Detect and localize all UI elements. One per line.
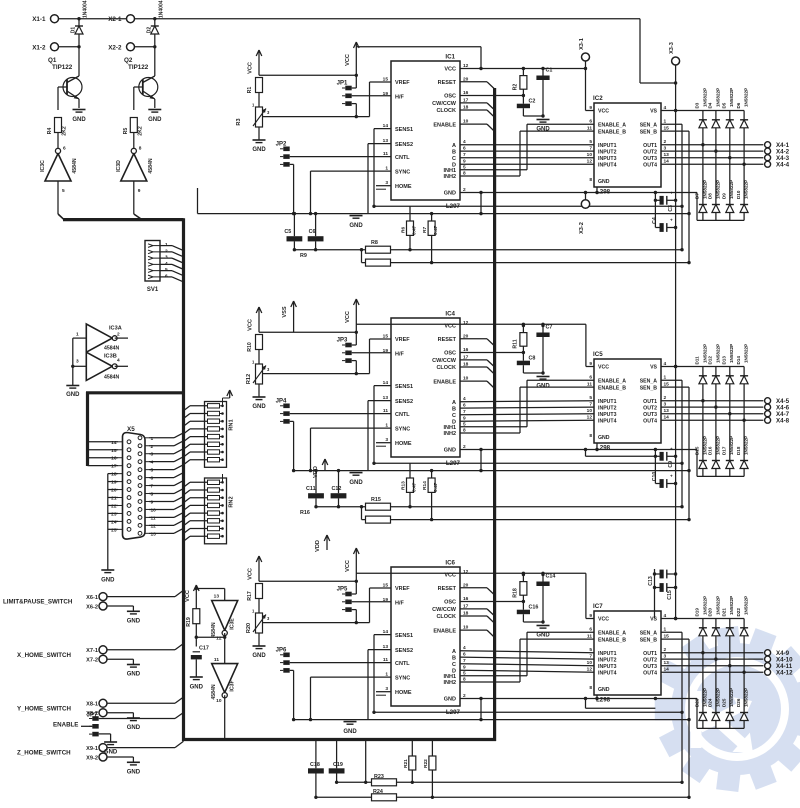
svg-text:D6: D6 — [736, 102, 741, 108]
svg-text:INH1: INH1 — [443, 674, 456, 680]
diode D10 1N5822P — [736, 164, 749, 220]
ground symbol on rail — [343, 722, 357, 735]
svg-text:1: 1 — [151, 436, 154, 442]
svg-text:SEN_A: SEN_A — [640, 378, 658, 384]
svg-text:R13: R13 — [401, 481, 407, 490]
wire L298 GND pin stub — [595, 443, 657, 451]
wire JP5 pin3 to VREF net — [352, 610, 357, 623]
svg-text:JP4: JP4 — [276, 398, 287, 404]
svg-text:SENS1: SENS1 — [395, 127, 413, 133]
wire X2-2 to D2 column — [135, 45, 157, 48]
svg-text:SENS2: SENS2 — [395, 142, 413, 148]
svg-text:Q1: Q1 — [48, 57, 57, 64]
connector X1-2 — [32, 43, 58, 52]
svg-text:5: 5 — [589, 395, 592, 401]
wire INH2 to ENABLE_B — [460, 387, 594, 433]
svg-text:R21: R21 — [403, 759, 409, 768]
svg-text:GND: GND — [190, 685, 204, 691]
diode D18 1N5822P — [736, 420, 749, 476]
wire X9-2 to ground — [107, 757, 133, 762]
wire SENS2 — [368, 401, 391, 471]
svg-text:R9: R9 — [300, 253, 307, 259]
svg-text:VREF: VREF — [395, 80, 410, 86]
diode D8 1N5822P — [708, 151, 721, 220]
wire INH2 to ENABLE_B — [460, 131, 594, 176]
svg-text:13: 13 — [151, 531, 157, 537]
wire OUT2 to X4-6 — [661, 406, 763, 408]
wire SEN_A to sense rail — [661, 124, 684, 251]
inverter IC3A 4584N — [76, 324, 122, 352]
svg-text:D3: D3 — [695, 102, 700, 108]
svg-text:1N5822P: 1N5822P — [729, 344, 734, 363]
capacitor C14 — [536, 573, 555, 624]
svg-text:10: 10 — [216, 698, 222, 704]
wire X9-1 to bus — [107, 741, 184, 747]
svg-text:INH1: INH1 — [443, 425, 456, 431]
wire OUT4 to X4-4 — [661, 163, 763, 165]
svg-text:R4: R4 — [47, 128, 53, 135]
capacitor C17 — [191, 645, 209, 677]
svg-text:GND: GND — [598, 179, 610, 185]
wire IC GND pin to ground rail — [460, 697, 697, 722]
svg-text:12: 12 — [463, 320, 469, 326]
svg-text:2: 2 — [151, 444, 154, 450]
svg-text:24: 24 — [111, 519, 117, 525]
svg-text:SENS1: SENS1 — [395, 384, 413, 390]
connector X7-1 — [86, 646, 107, 654]
svg-text:4584N: 4584N — [104, 375, 120, 381]
wire phase A to INPUT1 — [460, 651, 594, 653]
svg-text:SENS1: SENS1 — [395, 633, 413, 639]
svg-text:X1-1: X1-1 — [32, 16, 46, 23]
svg-text:IC4: IC4 — [445, 311, 455, 318]
svg-text:R1: R1 — [247, 87, 253, 94]
svg-text:INPUT4: INPUT4 — [598, 162, 617, 168]
svg-text:ENABLE_B: ENABLE_B — [598, 129, 626, 135]
diode D24 1N5822P — [708, 659, 721, 728]
diode D13 1N5822P — [722, 344, 735, 416]
svg-text:VCC: VCC — [248, 319, 254, 331]
svg-text:CW/CCW: CW/CCW — [432, 358, 457, 364]
svg-text:GND: GND — [127, 618, 141, 624]
wire ENABLE to control bus — [460, 124, 495, 131]
svg-text:VCC: VCC — [345, 54, 351, 66]
capacitor C7 — [536, 324, 552, 375]
svg-text:X_HOME_SWITCH: X_HOME_SWITCH — [17, 652, 72, 659]
svg-text:4584N: 4584N — [211, 684, 217, 700]
svg-text:+: + — [670, 218, 673, 223]
wire X7-2 to ground — [107, 659, 133, 664]
resistor R4 2K2 — [47, 118, 68, 148]
svg-text:14: 14 — [111, 440, 117, 446]
wire ENABLE to JP7 — [81, 725, 92, 727]
wire OUT2 to X4-10 — [661, 658, 763, 660]
svg-text:D26: D26 — [736, 698, 741, 707]
svg-text:IC3B: IC3B — [104, 354, 117, 360]
wire VCC rail to JP pin1 (JP5) — [259, 580, 358, 594]
svg-text:SYNC: SYNC — [395, 169, 410, 175]
svg-text:IC3D: IC3D — [116, 160, 122, 172]
svg-text:IC1: IC1 — [445, 54, 455, 61]
svg-text:R17: R17 — [247, 591, 253, 601]
resistor R21 0.47 — [403, 741, 416, 784]
svg-text:4584N: 4584N — [72, 158, 78, 174]
thick wire X5 pins 14-17 to bus corner — [86, 392, 184, 466]
svg-text:VCC: VCC — [248, 568, 254, 580]
svg-text:GND: GND — [127, 672, 141, 678]
svg-text:D9: D9 — [722, 193, 727, 199]
capacitor C10 (electrolytic) — [652, 472, 677, 488]
svg-text:12: 12 — [587, 159, 593, 165]
svg-text:C5: C5 — [284, 229, 291, 235]
svg-text:8: 8 — [589, 433, 592, 439]
svg-text:IC3E: IC3E — [230, 618, 236, 630]
svg-text:5: 5 — [589, 647, 592, 653]
svg-text:OUT3: OUT3 — [643, 664, 657, 670]
svg-text:VCC: VCC — [598, 365, 609, 371]
svg-text:SEN_B: SEN_B — [640, 637, 658, 643]
svg-text:10: 10 — [587, 152, 593, 158]
svg-text:GND: GND — [343, 729, 357, 735]
svg-text:SYNC: SYNC — [395, 426, 410, 432]
svg-text:1N5822P: 1N5822P — [702, 88, 707, 107]
L298 IC2 — [587, 95, 670, 196]
capacitor C2 — [517, 96, 543, 117]
wire JP3 pin2 to H/F — [352, 352, 391, 354]
wire X3-1 to VCC pin 9 — [586, 69, 595, 111]
wire JP1 pin2 to H/F — [352, 95, 391, 97]
svg-text:OUT1: OUT1 — [643, 143, 657, 149]
svg-text:12: 12 — [587, 667, 593, 673]
svg-text:GND: GND — [101, 578, 115, 584]
ground for C2/C1 — [536, 120, 550, 133]
svg-text:2K2: 2K2 — [137, 126, 143, 136]
resistor R24 — [372, 789, 397, 801]
svg-text:OUT4: OUT4 — [643, 162, 657, 168]
wire phase B to INPUT2 — [460, 150, 594, 152]
svg-text:0.47: 0.47 — [412, 225, 418, 235]
connector X2-1 — [108, 15, 134, 24]
svg-text:5: 5 — [151, 468, 154, 474]
inverter IC3F 4584N — [211, 657, 238, 704]
wire INH1 to ENABLE_A — [460, 632, 594, 676]
svg-text:GND: GND — [349, 223, 363, 229]
wire SEN_B to ground-side rail — [661, 131, 691, 264]
svg-text:18: 18 — [111, 472, 117, 478]
svg-text:D2: D2 — [146, 27, 152, 34]
svg-text:LIMIT&PAUSE_SWITCH: LIMIT&PAUSE_SWITCH — [3, 599, 73, 606]
svg-text:CLOCK: CLOCK — [436, 614, 456, 620]
svg-text:C6: C6 — [309, 229, 316, 235]
svg-text:RN2: RN2 — [229, 496, 235, 507]
resistor R2 — [513, 67, 527, 96]
connector X4-2 — [765, 148, 790, 155]
wire IC3C output to thick bus — [58, 181, 64, 220]
svg-text:C7: C7 — [546, 325, 553, 331]
svg-text:SEN_B: SEN_B — [640, 385, 658, 391]
svg-text:VCC: VCC — [598, 617, 609, 623]
svg-text:B: B — [452, 655, 456, 661]
svg-text:D1: D1 — [71, 27, 77, 34]
diode D2 1N4004 — [146, 0, 164, 47]
svg-text:GND: GND — [444, 697, 456, 703]
wire IC GND pin to ground rail — [460, 448, 697, 473]
svg-text:VCC: VCC — [185, 590, 191, 602]
ground for X5 — [101, 570, 115, 584]
ground for X8 — [127, 718, 141, 731]
svg-text:12: 12 — [587, 415, 593, 421]
svg-text:7: 7 — [589, 146, 592, 152]
connector X3-2 — [579, 200, 590, 234]
inverter IC3B 4584N — [76, 352, 120, 380]
svg-text:CLOCK: CLOCK — [436, 365, 456, 371]
svg-text:7: 7 — [589, 654, 592, 660]
wire X1-2 to D1 column — [59, 45, 81, 48]
wire SENS2 — [368, 650, 391, 720]
svg-text:Q2: Q2 — [124, 57, 133, 64]
svg-text:OUT4: OUT4 — [643, 418, 657, 424]
svg-text:1N5822P: 1N5822P — [702, 596, 707, 615]
ground for Q1 — [72, 110, 86, 124]
svg-text:OUT3: OUT3 — [643, 156, 657, 162]
svg-text:INPUT2: INPUT2 — [598, 405, 617, 411]
diode D9 1N5822P — [722, 158, 735, 221]
svg-text:1: 1 — [76, 332, 79, 338]
connector X8-2 — [86, 709, 107, 717]
svg-text:D13: D13 — [722, 356, 727, 365]
svg-text:1N5822P: 1N5822P — [715, 688, 720, 707]
svg-text:1N5822P: 1N5822P — [715, 180, 720, 199]
svg-text:GND: GND — [127, 769, 141, 775]
power VCC for R17 — [248, 556, 262, 581]
svg-text:ENABLE_A: ENABLE_A — [598, 122, 626, 128]
wire phase D to INPUT4 — [460, 420, 594, 421]
svg-text:8: 8 — [139, 146, 142, 152]
svg-text:B: B — [452, 149, 456, 155]
wire X8-2 to ground — [107, 713, 133, 718]
svg-text:X7-2: X7-2 — [86, 658, 98, 664]
wire IC GND pin to ground rail — [460, 191, 697, 216]
jumper JP4 — [276, 398, 290, 423]
svg-text:11: 11 — [214, 657, 219, 663]
svg-text:0.47: 0.47 — [433, 225, 439, 235]
svg-text:CNTL: CNTL — [395, 155, 410, 161]
svg-text:HOME: HOME — [395, 690, 412, 696]
svg-text:VS: VS — [650, 109, 657, 115]
svg-text:D22: D22 — [736, 608, 741, 617]
ground for R12 — [252, 384, 266, 410]
wire SENS1 — [374, 386, 391, 464]
svg-text:R10: R10 — [247, 342, 253, 352]
wire diode bottom rail — [697, 699, 744, 729]
wire CW/CCW to control bus — [460, 360, 495, 367]
svg-text:IC3F: IC3F — [230, 680, 236, 691]
svg-text:SEN_A: SEN_A — [640, 122, 658, 128]
resistor R10 — [247, 335, 263, 365]
svg-text:0.47: 0.47 — [412, 482, 418, 492]
power VDD arrow (channel 2) — [313, 459, 328, 478]
wire SENS1 — [374, 129, 391, 207]
svg-text:INPUT3: INPUT3 — [598, 664, 617, 670]
svg-text:H/F: H/F — [395, 95, 405, 101]
svg-text:OUT2: OUT2 — [643, 149, 657, 155]
svg-text:INH2: INH2 — [443, 174, 456, 180]
wire sense rail 1 — [372, 205, 682, 208]
svg-text:1N5822P: 1N5822P — [702, 688, 707, 707]
svg-text:GND: GND — [598, 435, 610, 441]
svg-text:C: C — [452, 662, 456, 668]
svg-text:C18: C18 — [310, 762, 320, 768]
resistor R8 — [366, 240, 391, 253]
svg-text:1N4004: 1N4004 — [83, 0, 89, 18]
wire ground rail — [294, 719, 689, 721]
svg-text:+: + — [670, 190, 673, 195]
ground symbol on rail — [349, 216, 363, 229]
svg-text:4584N: 4584N — [148, 158, 154, 174]
svg-text:8: 8 — [589, 685, 592, 691]
svg-text:RESET: RESET — [438, 80, 457, 86]
wire Q1 base to R4 — [57, 87, 59, 110]
capacitor C6 — [308, 212, 324, 251]
L297 IC6 — [383, 560, 469, 717]
svg-text:VDD: VDD — [313, 466, 319, 478]
svg-text:3: 3 — [151, 452, 154, 458]
wire VCC rail to X3-1 and VCC pin — [356, 47, 587, 71]
inverter IC3D 4584N — [116, 146, 154, 195]
svg-text:R19: R19 — [186, 617, 192, 627]
L297 IC4 — [383, 311, 469, 468]
wire phase D to INPUT4 — [460, 670, 594, 672]
wire VCC rail to JP pin1 (JP1) — [259, 74, 358, 88]
wire HOME stub — [376, 443, 391, 447]
svg-text:19: 19 — [111, 480, 117, 486]
svg-text:X4-12: X4-12 — [776, 669, 793, 676]
power VCC for R19 — [185, 585, 199, 610]
svg-text:R2: R2 — [513, 84, 519, 91]
svg-text:10: 10 — [587, 408, 593, 414]
svg-text:CW/CCW: CW/CCW — [432, 101, 457, 107]
svg-text:R12: R12 — [246, 374, 252, 384]
svg-text:C4: C4 — [652, 217, 658, 224]
svg-text:TIP122: TIP122 — [52, 64, 73, 71]
svg-text:4584N: 4584N — [211, 622, 217, 638]
svg-text:1N5822P: 1N5822P — [715, 344, 720, 363]
wire IC3A output — [115, 337, 128, 339]
connector X6-1 — [86, 593, 107, 601]
svg-text:11: 11 — [587, 126, 592, 132]
wire sense return rail A — [294, 249, 682, 251]
svg-text:D11: D11 — [695, 356, 700, 365]
L298 IC5 — [587, 351, 670, 452]
wire phase B to INPUT2 — [460, 407, 594, 408]
resistor R13 0.47 — [401, 463, 418, 508]
svg-text:R5: R5 — [123, 128, 129, 135]
svg-text:INPUT4: INPUT4 — [598, 670, 617, 676]
svg-text:4: 4 — [117, 358, 120, 364]
svg-text:17: 17 — [111, 464, 117, 470]
svg-text:Z_HOME_SWITCH: Z_HOME_SWITCH — [17, 750, 71, 757]
wire SYNC — [309, 677, 391, 721]
svg-text:OSC: OSC — [444, 351, 456, 357]
svg-text:1N5822P: 1N5822P — [729, 436, 734, 455]
wire JP6 pin2 to CNTL — [290, 662, 391, 664]
svg-text:X2-2: X2-2 — [108, 44, 122, 51]
svg-text:3: 3 — [76, 359, 79, 365]
jumper JP2 — [276, 141, 290, 166]
diode D7 1N5822P — [695, 145, 708, 221]
svg-text:A: A — [452, 649, 456, 655]
wire JP3 pin3 to VREF net — [352, 361, 357, 374]
transistor Q2 TIP122 — [124, 47, 158, 108]
svg-text:6: 6 — [589, 375, 592, 381]
svg-text:SEN_B: SEN_B — [640, 129, 658, 135]
wire JP7 pin1 to bus — [99, 713, 184, 719]
connector X4-5 — [765, 398, 790, 405]
svg-text:5: 5 — [62, 188, 65, 194]
svg-text:9: 9 — [151, 499, 154, 505]
svg-text:D5: D5 — [722, 102, 727, 108]
svg-text:D18: D18 — [736, 446, 741, 455]
svg-text:C16: C16 — [529, 605, 539, 611]
svg-text:D12: D12 — [708, 356, 713, 365]
wire phase C to INPUT3 — [460, 157, 594, 159]
wire IC3F output to bus — [224, 695, 226, 739]
svg-text:CNTL: CNTL — [395, 661, 410, 667]
diode D22 1N5822P — [736, 596, 749, 674]
wire VS filter left column — [654, 193, 657, 228]
resistor R19 — [186, 609, 200, 627]
svg-text:C19: C19 — [333, 762, 343, 768]
svg-text:11: 11 — [151, 515, 156, 521]
svg-text:C15: C15 — [667, 590, 673, 600]
svg-text:5: 5 — [589, 139, 592, 145]
wire VS filter left column — [653, 569, 656, 619]
wire IC3D output to thick bus — [134, 181, 142, 220]
diode D21 1N5822P — [722, 596, 735, 668]
wire X6-1 to bus — [107, 590, 184, 596]
ground for R20 — [252, 633, 266, 659]
svg-text:IC7: IC7 — [593, 603, 603, 610]
connector X9-1 — [86, 744, 107, 752]
wire JP2 pin2 to CNTL — [290, 156, 391, 158]
svg-text:ENABLE_A: ENABLE_A — [598, 378, 626, 384]
wire sense return rail A — [337, 741, 682, 784]
power VCC for R10 — [248, 307, 262, 332]
svg-text:D4: D4 — [708, 102, 713, 108]
svg-text:GND: GND — [66, 392, 80, 398]
potentiometer R3 — [236, 103, 270, 128]
svg-text:JP2: JP2 — [276, 141, 287, 147]
wires bus to RN1 — [184, 406, 208, 465]
wire CLOCK to control bus — [460, 110, 495, 117]
svg-text:6: 6 — [589, 119, 592, 125]
svg-text:R20: R20 — [246, 623, 252, 633]
resistor R22 0.47 — [423, 741, 436, 799]
svg-text:CNTL: CNTL — [395, 412, 410, 418]
svg-text:VCC: VCC — [345, 560, 351, 572]
connector X4-10 — [765, 656, 793, 663]
svg-text:R7: R7 — [422, 227, 428, 233]
svg-text:D24: D24 — [708, 698, 713, 707]
svg-text:13: 13 — [214, 594, 220, 600]
wire L298 GND pin stub — [595, 187, 657, 194]
svg-text:1N5822P: 1N5822P — [729, 180, 734, 199]
wire RESET to control bus — [460, 339, 495, 346]
connector X4-9 — [765, 650, 790, 657]
svg-text:SEN_A: SEN_A — [640, 630, 658, 636]
svg-text:D25: D25 — [722, 698, 727, 707]
svg-text:C3: C3 — [668, 205, 674, 212]
